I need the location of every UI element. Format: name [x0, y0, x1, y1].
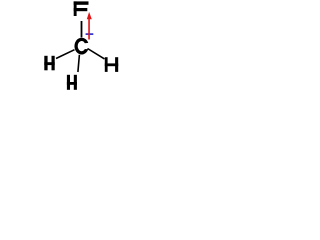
dipole plus crossbar (blue): [86, 33, 94, 35]
atom H bottom: [67, 75, 77, 90]
atom C (ring with right opening): [74, 38, 88, 55]
bond C-H right (diagonal): [88, 49, 105, 59]
atom H right: [105, 57, 118, 72]
molecule diagram: fluoromethane CH3F with dipole moment arrow: [0, 0, 155, 110]
dipole arrow head (red): [87, 12, 92, 19]
bond C-F (vertical): [81, 21, 83, 37]
background: [0, 0, 155, 110]
dipole arrow shaft (red): [88, 18, 90, 40]
bond C-H bottom (near vertical): [78, 55, 80, 72]
bond C-H left (diagonal): [56, 50, 75, 59]
atom F (built from rects: stem + two arms): [74, 1, 89, 16]
atom H left: [44, 56, 54, 71]
